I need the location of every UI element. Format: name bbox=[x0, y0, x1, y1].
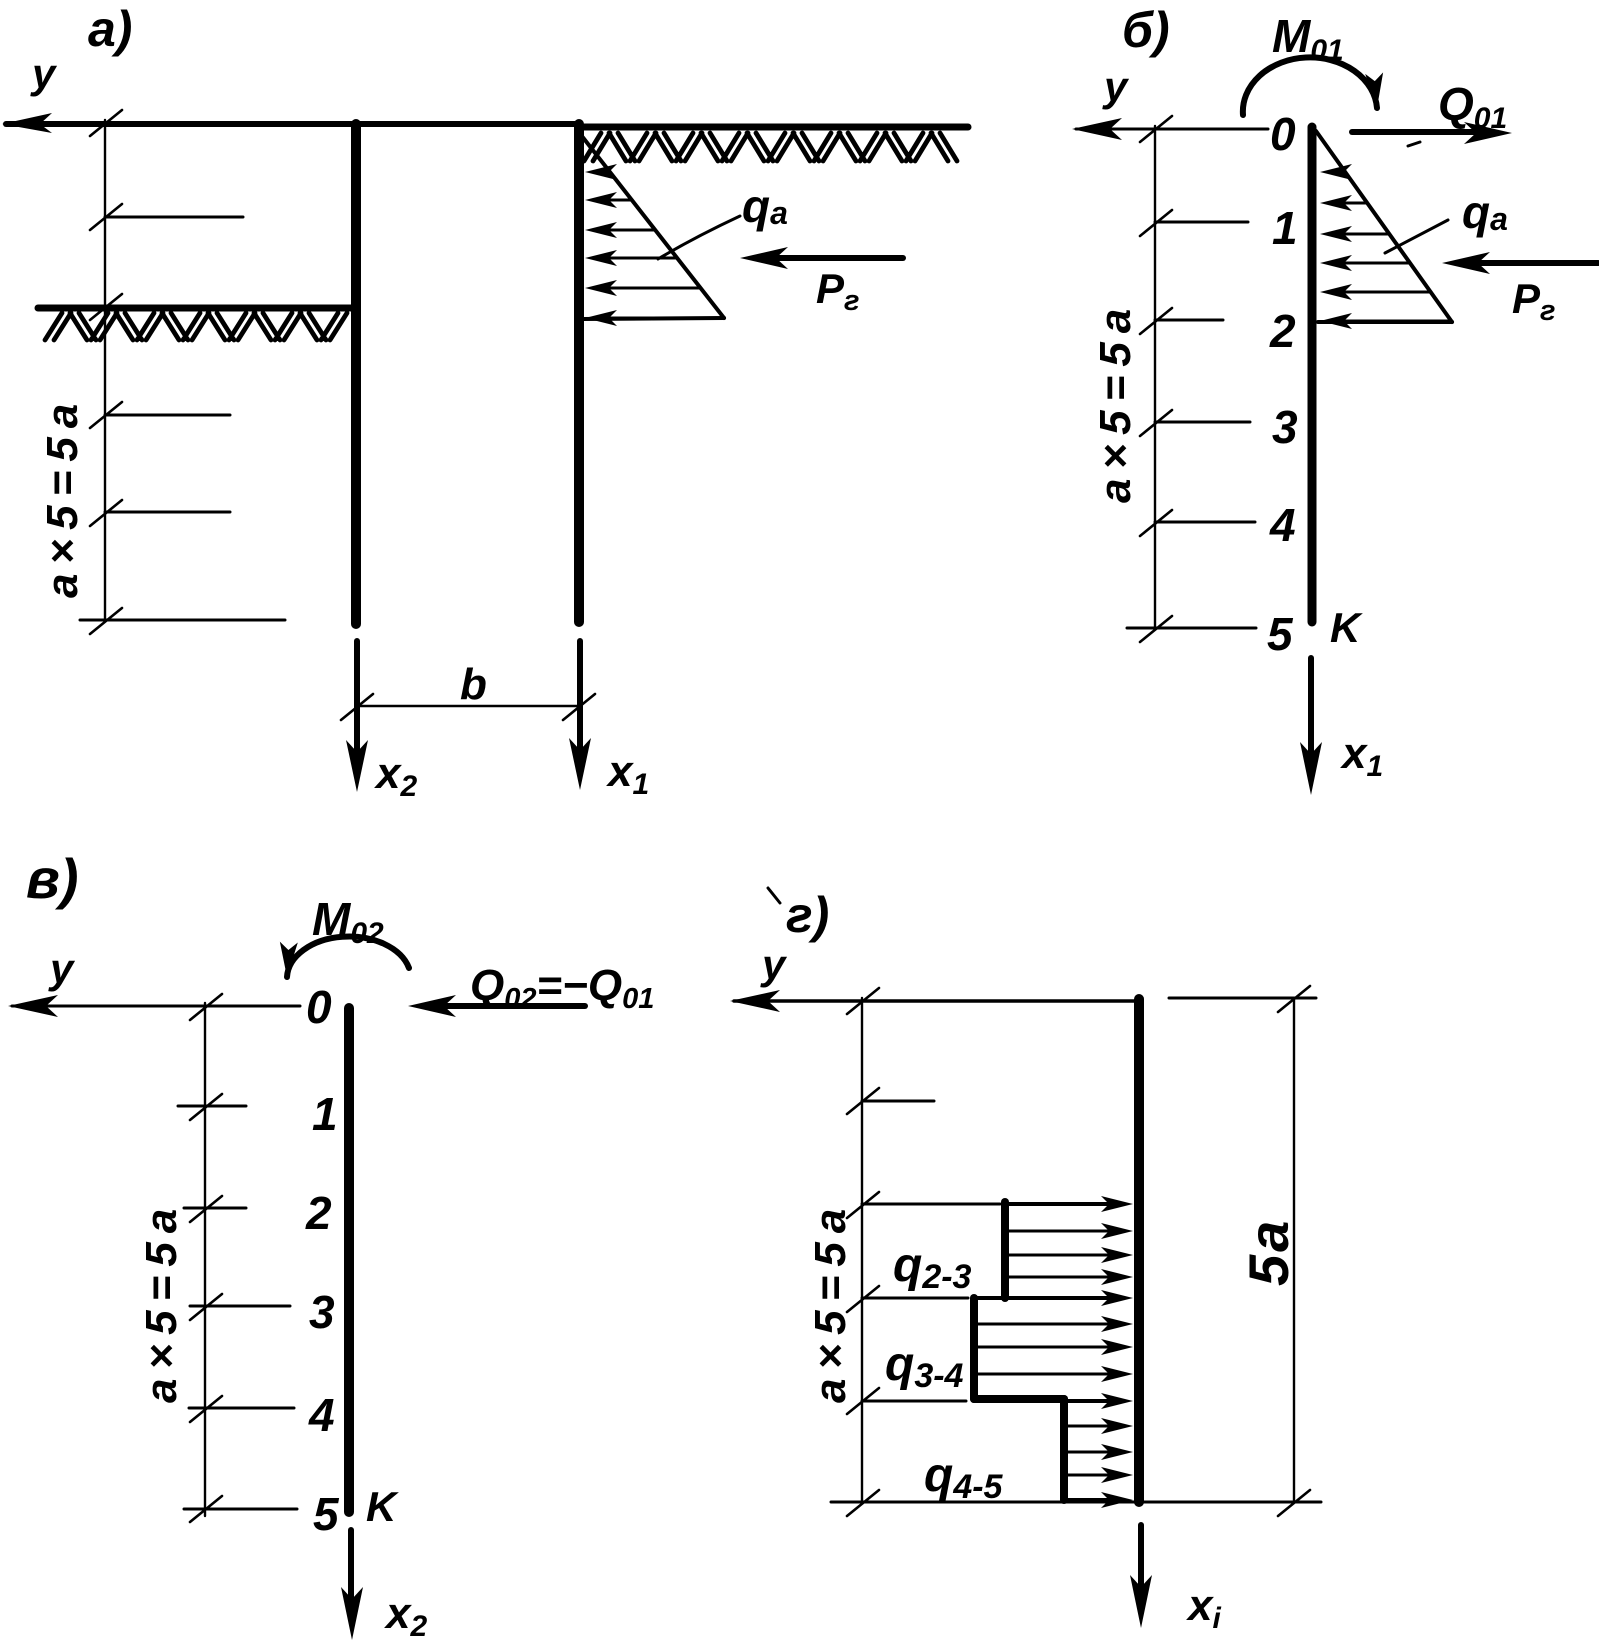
dimension line vertical fig a bbox=[104, 120, 106, 621]
svg-text:0: 0 bbox=[306, 981, 332, 1033]
svg-text:5: 5 bbox=[1267, 608, 1294, 660]
dim tick slash a y123 bbox=[90, 110, 122, 136]
dim tick slash v y1006 bbox=[190, 994, 222, 1020]
dim tick slash g y1502 bbox=[847, 1490, 879, 1516]
ground hatch right fig a bbox=[584, 133, 957, 161]
svg-text:у: у bbox=[48, 945, 76, 992]
svg-text:K: K bbox=[1330, 604, 1363, 651]
load triangle hypotenuse fig a bbox=[581, 135, 724, 318]
dim tick slash a y217 bbox=[90, 204, 122, 230]
load triangle bottom edge fig a bbox=[583, 318, 724, 319]
load arrow g q4-5 bottom bbox=[1064, 1498, 1108, 1502]
y-axis arrowhead fig v bbox=[8, 995, 58, 1017]
y-axis top line fig a bbox=[6, 121, 578, 127]
load arrow b6 bbox=[1328, 320, 1448, 323]
load arrow a3 bbox=[593, 229, 655, 232]
stray mark before g) bbox=[768, 888, 780, 903]
dim tick line b y320 bbox=[1155, 319, 1223, 322]
load arrow g q3-4 bottom bbox=[1064, 1399, 1108, 1403]
dim tick line a y512 bbox=[105, 511, 230, 514]
dim tick line g y1401 bbox=[862, 1400, 966, 1403]
svg-text:Q02=−Q01: Q02=−Q01 bbox=[470, 961, 654, 1015]
load block q2-3 left edge bbox=[1001, 1202, 1009, 1298]
dim tick line a y620 bbox=[80, 619, 285, 622]
ground surface line left (dredge level) fig a bbox=[38, 305, 354, 312]
svg-text:x2: x2 bbox=[384, 1589, 427, 1642]
dim tick line g y1298 bbox=[862, 1297, 968, 1300]
load arrow g q4-5 r4 bbox=[1064, 1474, 1108, 1477]
svg-text:1: 1 bbox=[312, 1088, 338, 1140]
svg-text:б): б) bbox=[1122, 2, 1170, 58]
dim tick line b y422 bbox=[1155, 421, 1250, 424]
svg-text:5: 5 bbox=[313, 1488, 340, 1540]
load block q4-5 left edge bbox=[1060, 1399, 1068, 1500]
dim tick slash v y1509 bbox=[190, 1496, 222, 1522]
dim tick line v y1106 bbox=[178, 1105, 246, 1108]
load arrow a6 bbox=[593, 317, 718, 320]
dim tick slash g y1401 bbox=[847, 1388, 879, 1414]
x1 axis arrow fig b bbox=[1308, 658, 1314, 772]
svg-text:в): в) bbox=[26, 847, 78, 910]
y-axis arrowhead fig g bbox=[730, 990, 780, 1012]
svg-text:qа: qа bbox=[742, 180, 788, 232]
svg-text:а×5=5а: а×5=5а bbox=[137, 1200, 186, 1403]
b dimension line fig a bbox=[357, 705, 578, 708]
dim tick line a y415 bbox=[105, 414, 230, 417]
svg-text:q2-3: q2-3 bbox=[893, 1239, 972, 1296]
load arrow b4 bbox=[1328, 262, 1410, 265]
load arrow a1 bbox=[593, 171, 610, 174]
load block q3-4 top edge bbox=[974, 1296, 1108, 1300]
load arrow g q2-3 r4 bbox=[1005, 1276, 1108, 1279]
svg-text:0: 0 bbox=[1270, 108, 1296, 160]
svg-text:у: у bbox=[1102, 63, 1130, 110]
dim slash top right bbox=[1278, 986, 1310, 1012]
x2 axis arrow fig v bbox=[348, 1530, 354, 1616]
dim tick slash v y1306 bbox=[190, 1294, 222, 1320]
load arrow a2 bbox=[593, 199, 632, 202]
load arrow b5 bbox=[1328, 291, 1431, 294]
dim tick line g y1101 bbox=[862, 1100, 934, 1103]
xi axis arrow fig g bbox=[1138, 1525, 1144, 1605]
y-axis line fig v bbox=[12, 1005, 300, 1008]
dim slash bottom right g bbox=[1278, 1490, 1310, 1516]
svg-text:Pг: Pг bbox=[816, 265, 860, 317]
dim tick slash a y620 bbox=[90, 608, 122, 634]
dim tick slash a y512 bbox=[90, 500, 122, 526]
dim tick line g y1204 bbox=[862, 1203, 1000, 1206]
wall right x1 fig a bbox=[574, 124, 584, 622]
wall line fig g bbox=[1134, 999, 1144, 1502]
dim tick slash b y628 bbox=[1140, 616, 1172, 642]
load block q3-4 left edge bbox=[970, 1298, 978, 1399]
load arrow b2 bbox=[1328, 202, 1367, 205]
dim tick slash b y522 bbox=[1140, 510, 1172, 536]
svg-text:3: 3 bbox=[309, 1286, 335, 1338]
svg-text:qа: qа bbox=[1462, 186, 1508, 238]
dim tick slash a y415 bbox=[90, 402, 122, 428]
load arrow g q3-4 r2 bbox=[974, 1323, 1108, 1326]
load arrow g q3-4 r3 bbox=[974, 1346, 1108, 1349]
dim tick slash b y422 bbox=[1140, 410, 1172, 436]
load triangle hypotenuse fig b bbox=[1316, 131, 1452, 322]
dim tick line v y1306 bbox=[190, 1305, 290, 1308]
load arrow g q2-3 r3 bbox=[1005, 1254, 1108, 1257]
dimension line vertical fig b bbox=[1154, 126, 1156, 629]
y-axis line fig g bbox=[734, 999, 1136, 1003]
dim tick line b y222 bbox=[1155, 221, 1248, 224]
pile line fig b bbox=[1308, 127, 1317, 622]
y-axis line fig b bbox=[1076, 128, 1268, 131]
dim tick slash g y1204 bbox=[847, 1192, 879, 1218]
dim tick line a y217 bbox=[105, 216, 243, 219]
svg-text:а×5=5а: а×5=5а bbox=[38, 395, 87, 598]
ground surface line right fig a bbox=[578, 124, 968, 131]
dim tick slash g y1101 bbox=[847, 1088, 879, 1114]
b dim slash left bbox=[341, 694, 373, 720]
dim tick line b y522 bbox=[1155, 521, 1255, 524]
b dim slash right bbox=[563, 694, 595, 720]
svg-text:xi: xi bbox=[1186, 1581, 1221, 1635]
svg-text:а×5=5а: а×5=5а bbox=[1091, 300, 1140, 503]
qa leader line fig b bbox=[1385, 220, 1448, 253]
dim tick line v y1208 bbox=[184, 1207, 246, 1210]
y-axis arrowhead fig a bbox=[2, 113, 52, 133]
qa leader line fig a bbox=[658, 216, 740, 259]
x1 axis arrow fig a bbox=[577, 641, 583, 768]
svg-text:x1: x1 bbox=[1340, 729, 1383, 783]
dim tick slash b y222 bbox=[1140, 210, 1172, 236]
svg-text:4: 4 bbox=[308, 1389, 335, 1441]
svg-text:а): а) bbox=[88, 1, 132, 57]
svg-text:у: у bbox=[760, 941, 788, 988]
load block q2-3 top edge bbox=[1005, 1202, 1108, 1206]
svg-text:Q01: Q01 bbox=[1438, 78, 1507, 135]
dim tick slash b y129 bbox=[1140, 116, 1172, 142]
load arrow g q3-4 r4 bbox=[974, 1373, 1108, 1376]
svg-text:г): г) bbox=[786, 887, 829, 943]
dim tick slash v y1208 bbox=[190, 1196, 222, 1222]
svg-text:b: b bbox=[460, 660, 487, 709]
svg-text:q4-5: q4-5 bbox=[924, 1449, 1004, 1506]
svg-text:3: 3 bbox=[1272, 401, 1298, 453]
svg-text:4: 4 bbox=[1269, 499, 1296, 551]
svg-text:у: у bbox=[30, 50, 58, 97]
dim tick slash v y1106 bbox=[190, 1094, 222, 1120]
Q01 force arrow fig b bbox=[1352, 129, 1488, 135]
pile line fig v bbox=[344, 1008, 354, 1512]
svg-text:2: 2 bbox=[1269, 305, 1296, 357]
dimension line vertical left fig g bbox=[861, 998, 863, 1502]
svg-text:5а: 5а bbox=[1237, 1218, 1300, 1286]
dim tick slash b y320 bbox=[1140, 308, 1172, 334]
load arrow g q4-5 r3 bbox=[1064, 1451, 1108, 1454]
load triangle bottom edge fig b bbox=[1318, 320, 1452, 324]
right dimension line fig g bbox=[1293, 998, 1295, 1502]
dim tick line b y628 bbox=[1127, 627, 1256, 630]
svg-text:2: 2 bbox=[305, 1187, 332, 1239]
Q02 force arrow fig v bbox=[437, 1003, 585, 1009]
top right dim line fig g bbox=[1169, 997, 1316, 1000]
x2 axis arrow fig a bbox=[354, 641, 360, 770]
dim tick line v y1408 bbox=[189, 1407, 294, 1410]
dim tick slash v y1408 bbox=[190, 1396, 222, 1422]
dim tick slash g y1001 bbox=[847, 988, 879, 1014]
dim tick slash g y1298 bbox=[847, 1286, 879, 1312]
dim tick slash a y307 bbox=[90, 294, 122, 320]
svg-text:K: K bbox=[366, 1483, 399, 1530]
moment arc M02 bbox=[287, 936, 409, 977]
load arrow b3 bbox=[1328, 233, 1389, 236]
y-axis arrowhead fig b bbox=[1072, 118, 1122, 140]
svg-text:1: 1 bbox=[1272, 202, 1298, 254]
small stray tick under Q01 bbox=[1408, 142, 1420, 146]
load arrow g q2-3 r2 bbox=[1005, 1230, 1108, 1233]
svg-text:x2: x2 bbox=[374, 749, 417, 803]
moment arc M01 bbox=[1243, 57, 1377, 115]
svg-text:а×5=5а: а×5=5а bbox=[806, 1200, 855, 1403]
svg-text:Pг: Pг bbox=[1512, 275, 1556, 327]
load arrow g q4-5 r2 bbox=[1064, 1425, 1108, 1428]
svg-text:x1: x1 bbox=[606, 747, 649, 801]
dimension line vertical fig v bbox=[204, 1003, 206, 1516]
ground hatch left fig a bbox=[45, 313, 347, 340]
wall left x2 fig a bbox=[351, 124, 361, 624]
load arrow b1 bbox=[1328, 171, 1345, 174]
load arrow a4 bbox=[593, 257, 677, 260]
load arrow a5 bbox=[593, 287, 700, 290]
svg-text:q3-4: q3-4 bbox=[885, 1338, 964, 1395]
Pr force arrow fig b bbox=[1464, 260, 1598, 266]
dim tick line v y1509 bbox=[184, 1508, 297, 1511]
load block q3-4 bottom edge bbox=[974, 1395, 1064, 1403]
Pr force arrow fig a bbox=[762, 255, 903, 261]
bottom line fig g bbox=[831, 1501, 1321, 1504]
